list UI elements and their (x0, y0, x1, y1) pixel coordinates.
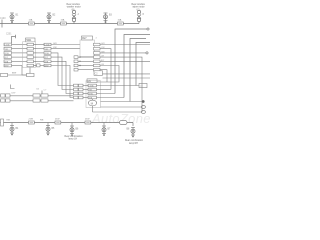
svg-text:15A: 15A (29, 19, 33, 22)
wire J3 row4 right (100, 57, 142, 112)
connector C5 boxes left edge (1, 94, 11, 102)
label connector J4 pins (89, 86, 94, 100)
wire J4 row3 tick (83, 93, 88, 95)
svg-text:10A: 10A (118, 19, 122, 22)
wire motor stem top (92, 99, 94, 100)
svg-text:Y/R: Y/R (89, 90, 93, 92)
lamp E7 (102, 126, 106, 136)
wire J2 row4 drop (51, 57, 74, 89)
ground G1 (11, 85, 15, 89)
wire left bus lower (0, 100, 74, 102)
sensor B2 (137, 10, 141, 23)
connector box C4 (27, 73, 35, 76)
wire lamp E2 stem (48, 21, 50, 24)
wire S2 bottom stem (29, 67, 31, 73)
wire J2 row1 to block (51, 44, 80, 46)
switch S2 pin boxes (27, 43, 34, 67)
wire J1 row3 (12, 52, 28, 54)
motor M1 (88, 100, 96, 106)
stub connector boxes left of J3 (74, 56, 78, 71)
fuse F5 (55, 121, 61, 124)
wire J4 row4 tick (83, 97, 88, 99)
wire bottom net A (101, 101, 143, 103)
lamp E5 (46, 125, 50, 135)
wire J1 row6 (12, 65, 23, 67)
relay K1 header label (82, 36, 93, 40)
svg-text:Y/R: Y/R (5, 49, 9, 51)
sensor B1 (72, 10, 76, 23)
svg-text:G/B: G/B (89, 98, 93, 100)
wire J2 row6 drop (51, 66, 74, 98)
terminal ring N1 (147, 28, 149, 30)
wire J2 row2 to block (51, 48, 80, 50)
wire J4 row3 right (97, 93, 116, 95)
wire J4 row1 tick (83, 85, 88, 87)
lamp E8 (131, 127, 135, 137)
relay K1 body (80, 40, 95, 57)
node tick C6 (41, 91, 43, 94)
connector M1 header box (87, 79, 97, 83)
terminal T2 (141, 106, 145, 109)
svg-text:LG/B: LG/B (45, 45, 50, 47)
wire lamp E6 stem (71, 123, 73, 126)
connector J4 pin boxes (88, 84, 97, 99)
svg-text:G/Y: G/Y (45, 57, 49, 59)
switch S2 body (23, 42, 36, 68)
wire stub J3 row4 (78, 56, 94, 58)
wire main bottom bus (0, 122, 133, 124)
node dot J3 row4 (79, 56, 80, 57)
connector J4 left boxes col1 (74, 84, 79, 99)
wire lamp E1 stem (11, 21, 13, 24)
wire bottom net C (93, 111, 143, 113)
wire J1 row1 (12, 44, 28, 46)
switch S2 pin arrows (34, 45, 38, 66)
svg-text:Y/R: Y/R (45, 49, 49, 51)
lamp E3 (103, 13, 107, 23)
connector inline C8 (120, 121, 128, 125)
switch S2 header label (26, 38, 36, 42)
wire S2 to J2 row4 (37, 56, 44, 58)
wire J3 row1 right (100, 44, 150, 46)
terminal T3 (141, 111, 145, 114)
wire left bus upper (0, 95, 74, 97)
lamp E6 (70, 126, 74, 136)
wire S2 to J2 row2 (37, 48, 44, 50)
wire J1 row5 (12, 60, 28, 62)
wire J4 row4 right (97, 97, 125, 99)
wire J1 row2 (12, 48, 28, 50)
svg-text:15A: 15A (61, 19, 65, 22)
wire S2 to J2 row6 (37, 65, 44, 67)
wire lamp E7 stem (103, 123, 105, 126)
node tick C201 (15, 35, 17, 38)
svg-text:C100: C100 (0, 18, 6, 20)
wire bus lower right 1 (103, 73, 151, 75)
connector J2 pin boxes (44, 43, 51, 67)
wire lamp E3 stem (105, 21, 107, 24)
connector box bottom left edge (1, 119, 4, 126)
node dot J3 row6 (79, 65, 80, 66)
terminal T1 (142, 100, 145, 103)
connector C6 boxes mid (33, 94, 48, 102)
fuse F6 (85, 121, 91, 124)
svg-text:lamp LH: lamp LH (69, 139, 78, 141)
svg-text:G/W: G/W (5, 53, 9, 55)
connector box row6 aux (37, 64, 41, 67)
wire J4 row1 right to C9 (97, 85, 140, 87)
wire J2 row5 drop (51, 61, 74, 93)
wire lamp E4 stem (11, 123, 13, 126)
wire elbow net N4 right (136, 43, 150, 86)
wire stub J3 row6 (78, 65, 94, 67)
wire J3 row3 right (100, 52, 146, 54)
wire bottom net B (101, 106, 143, 108)
label box U2 below (94, 71, 103, 76)
wire elbow net N3 right (130, 39, 146, 102)
wire S2 to J2 row5 (37, 60, 44, 62)
connector J4 left boxes col2 (79, 84, 84, 99)
wire J4 row2 tick (83, 89, 88, 91)
node dot J3 row5 (79, 61, 80, 62)
svg-text:B/W: B/W (45, 66, 49, 68)
wire net C stem (92, 106, 94, 112)
wire elbow net N2 right (124, 35, 150, 98)
fuse F4 (29, 121, 35, 124)
svg-text:LG/B: LG/B (5, 45, 10, 47)
lamp E4 (10, 125, 14, 135)
node splice S1 left edge (1, 20, 3, 28)
wire bus lower right 2 (103, 77, 151, 79)
wire stub J3 row7 (78, 69, 94, 71)
svg-text:G/W: G/W (89, 94, 93, 96)
svg-text:G/W: G/W (45, 53, 49, 55)
connector box C3 left (1, 73, 8, 76)
wire stub J3 row5 (78, 60, 94, 62)
label connector J2 pins (45, 45, 50, 68)
connector J1 pin boxes left column (4, 43, 12, 67)
connector J3 pin boxes (94, 43, 101, 71)
label J3 wire colors (101, 43, 105, 66)
svg-text:G/B: G/B (5, 61, 9, 63)
lamp E2 (47, 13, 51, 23)
connector box right N4 (139, 83, 147, 87)
wire J3 row5 right (100, 60, 150, 62)
wire S2 to J2 row1 (37, 44, 44, 46)
wire J3 row6 drop (95, 66, 119, 83)
svg-text:G/Y: G/Y (5, 57, 9, 59)
terminal ring J3 row3 (146, 52, 148, 54)
wire main top bus (0, 23, 139, 25)
module M1 body (86, 81, 101, 108)
wire bottom drop (132, 123, 134, 127)
wire J1 row4 (12, 56, 28, 58)
wire J3 row2 drop (100, 49, 111, 90)
wire J3 row7 drop (100, 70, 107, 82)
fuse F3 (118, 22, 124, 25)
lamp E1 (10, 13, 14, 23)
svg-text:C201: C201 (6, 34, 12, 36)
svg-text:Rear combination: Rear combination (125, 139, 144, 142)
wire J1 row6 drop (22, 66, 27, 76)
fuse F1 (29, 22, 35, 25)
wire elbow net N1 right (115, 29, 147, 94)
wire J4 row2 right (97, 89, 112, 91)
wire branch row6 L (1, 74, 27, 76)
wire J2 row3 drop (51, 53, 74, 86)
wire lamp E5 stem (47, 123, 49, 126)
svg-text:LG/B: LG/B (89, 86, 94, 88)
svg-text:lamp RH: lamp RH (129, 143, 138, 145)
svg-text:B/W: B/W (5, 66, 9, 68)
fuse F2 (61, 22, 67, 25)
wire S2 to J2 row3 (37, 52, 44, 54)
svg-text:G/B: G/B (45, 61, 49, 63)
wire stub connector C201 arrow (12, 37, 16, 44)
label connector J1 pins (5, 45, 10, 68)
